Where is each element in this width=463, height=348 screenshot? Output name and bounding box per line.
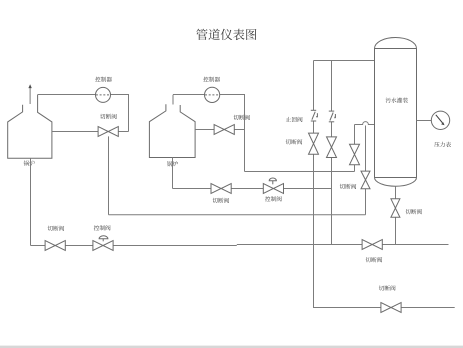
- valve V1 cut-off: [98, 127, 118, 137]
- label boiler B2 锅炉: [167, 161, 178, 166]
- vessel T1 top chord: [375, 48, 417, 50]
- pressure gauge PG1 needle: [436, 115, 443, 123]
- label valve V10 切断阀: [405, 209, 422, 214]
- boiler B2 vessel outline: [149, 104, 195, 157]
- valve V7 cut-off on riser B: [327, 137, 337, 158]
- controller U1 dashed signal line: [96, 94, 110, 96]
- wire: vessel inlet line y124.5 with crossover hop: [355, 122, 375, 125]
- label valve V3 切断阀: [212, 198, 229, 203]
- label valve V1 切断阀: [100, 114, 117, 119]
- title 管道仪表图: [196, 29, 256, 40]
- valve V3 cut-off on y188 line: [211, 184, 231, 194]
- wire: B1 bottom drain down-left leg: [30, 158, 32, 245]
- controller U2 dashed signal line: [205, 94, 219, 96]
- wire: bottom process line y244.4 (east part): [237, 244, 449, 246]
- vessel T1 top dome: [375, 38, 417, 49]
- wire: riser B: [331, 61, 333, 245]
- valve V6 cut-off on riser A: [309, 133, 319, 154]
- wire: B1 top outlet to controller loop corner: [38, 95, 129, 132]
- label boiler B1 锅炉: [24, 161, 35, 166]
- label pressure gauge 压力表: [434, 142, 451, 147]
- wire: B2 side to valve V2 line: [195, 129, 244, 131]
- control valve CV2 actuator stem: [272, 181, 274, 185]
- vessel T1 bottom dish: [375, 178, 417, 187]
- valve V10 cut-off vessel drain: [391, 199, 400, 218]
- wire: bottom process line y245 (west part): [31, 245, 237, 247]
- control valve CV1 body: [93, 241, 113, 251]
- valve V4 cut-off bottom-left: [45, 241, 65, 251]
- boiler B1 vent line: [29, 88, 31, 104]
- controller U2 instrument circle: [205, 87, 220, 102]
- control valve CV1 actuator dome: [99, 236, 108, 239]
- wire: gauge tap line: [417, 120, 432, 122]
- check valve CK1 on riser A: [311, 109, 316, 111]
- label valve V11 切断阀: [379, 285, 396, 290]
- label vessel T1 污水灌装: [386, 98, 408, 103]
- label valve V9 切断阀: [340, 184, 357, 189]
- wire: branch C leg: [354, 125, 356, 172]
- control valve CV1 actuator stem: [102, 239, 104, 242]
- page bottom scroll edge band: [0, 346, 463, 348]
- wire: valve V1 center drop: [108, 136, 110, 214]
- label check valves 止回阀: [286, 117, 303, 122]
- valve V11 cut-off on bottom line: [381, 303, 401, 313]
- wire: B2 top outlet to controller loop corner: [173, 95, 245, 172]
- wire: collector line y171.3: [245, 171, 355, 173]
- wire: branch D leg: [365, 126, 367, 215]
- label control valve CV2 控制阀: [265, 196, 282, 201]
- wire: B2 bottom drain leg: [172, 158, 174, 189]
- check valve CK2 on riser B: [329, 110, 334, 112]
- valve V2 cut-off: [214, 125, 234, 135]
- wire: vessel drain stub: [395, 186, 397, 244]
- boiler B1 vent arrowhead: [28, 84, 31, 88]
- label valve V4 切断阀: [48, 226, 65, 231]
- wire: riser A: [314, 61, 455, 308]
- wire: top header line y60.7: [314, 60, 375, 62]
- wire: process line y188 from B2 drain to branch B: [173, 188, 332, 190]
- boiler B1 vessel outline: [8, 95, 52, 159]
- pressure gauge PG1 dial: [431, 111, 449, 129]
- label controller U2 控制器: [203, 77, 220, 82]
- vessel T1 walls: [375, 49, 417, 178]
- vessel T1 bottom chord: [375, 177, 417, 179]
- valve V9 cut-off on branch D: [361, 171, 370, 189]
- label riser valves 切断阀: [286, 139, 303, 144]
- label valve V2 切断阀: [233, 115, 250, 120]
- control valve CV2 actuator dome: [269, 178, 276, 181]
- controller U1 instrument circle: [96, 87, 111, 102]
- boiler B2 top outlet stub: [172, 95, 174, 105]
- label valve V5 切断阀: [366, 257, 383, 262]
- wire: B1 side to valve V1 line: [52, 131, 129, 133]
- label controller U1 控制器: [95, 77, 112, 82]
- label control valve CV1 控制阀: [94, 225, 111, 230]
- control valve CV2 body: [263, 184, 283, 194]
- valve V8 cut-off on branch C: [350, 144, 360, 165]
- valve V5 cut-off on y244 line: [362, 240, 382, 250]
- wire: collector line y214.8: [109, 214, 366, 216]
